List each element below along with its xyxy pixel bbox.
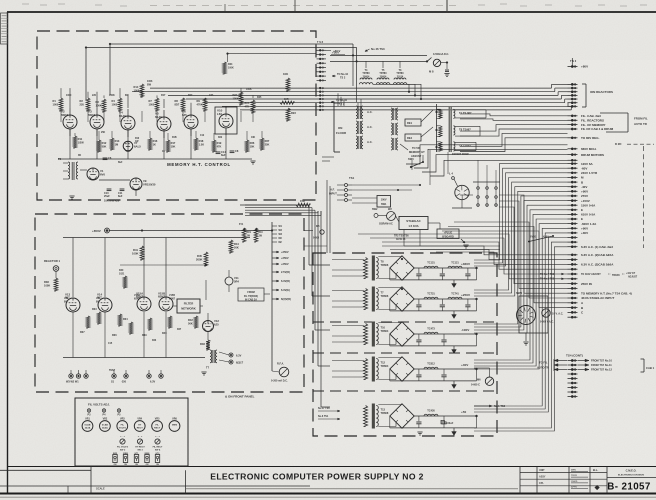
terminal stub FIL. CAB. 2&3 y115.8 bbox=[568, 114, 602, 118]
wire harness bus 4 bbox=[186, 98, 561, 100]
filter rails T13 bbox=[390, 416, 477, 428]
wire transformer bank drops bbox=[358, 99, 361, 106]
label No 46 TS3 bbox=[365, 47, 385, 52]
variac W2 bbox=[387, 208, 396, 221]
label TO No44 TS2 bbox=[332, 73, 349, 79]
terminal stub nc y84.4 bbox=[568, 83, 578, 85]
transformer core (front row bank) bbox=[449, 106, 451, 152]
terminal stub FIL OF CAB 4 & DRUM y129 bbox=[568, 127, 614, 131]
tube V15B bbox=[158, 292, 173, 312]
component 6Y10 bbox=[528, 235, 554, 242]
TS4 stub 3 bbox=[568, 369, 578, 371]
extra labels regulator box bbox=[64, 269, 182, 345]
resistor R11 bbox=[73, 136, 84, 148]
wire harness bus 7 riser bbox=[570, 106, 572, 110]
filter rails T12 bbox=[390, 369, 477, 381]
TS4 stub 6 bbox=[568, 382, 578, 384]
tube V3 bbox=[88, 108, 104, 136]
bridge rectifier T13 bbox=[378, 404, 414, 428]
input feeds T7 bbox=[332, 291, 364, 308]
TS4 stub 9 bbox=[568, 396, 578, 398]
transformer T12 TR664 bbox=[364, 357, 389, 382]
terminal stub B y182.1 bbox=[568, 180, 585, 184]
terminal stub FIL. OF MEMORY y124.6 bbox=[568, 123, 606, 127]
wire fil feed 5 bbox=[460, 133, 568, 146]
rectifier partition 2 bbox=[313, 352, 497, 354]
transformer T13 TR668 bbox=[364, 404, 389, 429]
terminal stub 270V y195.9 bbox=[568, 194, 589, 198]
wire feeder elbow 3 bbox=[315, 329, 330, 331]
top margin fold tick B bbox=[446, 0, 448, 13]
transformer winding AC group 1 bbox=[356, 106, 373, 119]
filter capacitors T10 bbox=[416, 334, 446, 346]
ground near transformer T6 bbox=[69, 195, 74, 197]
wire dc distribution 18 bbox=[474, 242, 568, 428]
resistor R41 100K bbox=[132, 246, 144, 260]
terminal stub B y307.6 bbox=[568, 306, 585, 310]
wire harness bus 5 riser bbox=[564, 99, 566, 103]
inner bus vertical bbox=[271, 222, 273, 371]
wire +30V internal bbox=[227, 53, 317, 62]
terminal strip TS8 upper stubs bbox=[317, 49, 327, 81]
wire mid horizontal 15R run bbox=[240, 204, 296, 206]
input feeds T8 bbox=[332, 260, 364, 277]
label TO No3 TS3 bbox=[540, 278, 564, 281]
wire dc distribution 3 bbox=[474, 173, 568, 266]
wire row y249 bbox=[390, 249, 500, 251]
TS4 stub 2 bbox=[568, 364, 578, 366]
resistor R13 bbox=[110, 138, 120, 150]
wire dc distribution 11 bbox=[474, 210, 568, 360]
filter capacitors T12 bbox=[416, 369, 446, 381]
rheostat VR5 bbox=[152, 418, 163, 432]
rectifier partition 1 bbox=[313, 321, 497, 323]
terminal stub nc y242.1 bbox=[568, 241, 578, 243]
resistor R1 bbox=[53, 98, 63, 111]
wire secondary staircase bbox=[373, 84, 422, 100]
terminal stub +150V y200.6 bbox=[568, 199, 590, 203]
output +50 bbox=[461, 410, 478, 417]
ground arrow T10 bbox=[452, 346, 457, 354]
output +360V bbox=[461, 262, 478, 269]
reactor coil bank 3 bbox=[391, 138, 398, 150]
ground arrow T12 bbox=[452, 381, 457, 389]
filter network box bbox=[177, 299, 200, 313]
transformer T10 TR664 bbox=[364, 322, 389, 347]
ground arrow T7 bbox=[452, 311, 457, 319]
resistor labels under tubes bbox=[80, 308, 167, 337]
capacitor C14 bbox=[216, 150, 227, 157]
capacitor C6 bbox=[103, 156, 112, 160]
ground arrow T8 bbox=[452, 280, 457, 288]
ground in memory box bbox=[250, 160, 255, 162]
meter switch small circles bbox=[117, 436, 163, 451]
terminal board grid bbox=[473, 182, 500, 207]
terminal stub DRUM MOTORS y154.6 bbox=[568, 153, 604, 157]
wire harness bus 3 riser bbox=[557, 92, 559, 96]
wire TS1 lines right bbox=[352, 184, 421, 200]
rheostat VR4 bbox=[134, 418, 145, 432]
switch box 100V SW1 bbox=[352, 196, 391, 208]
transformer winding T8 bbox=[437, 126, 481, 137]
terminal stub +80V y66.5 bbox=[568, 65, 589, 69]
terminal stub nc y106.36 bbox=[568, 105, 578, 107]
plugboard arrow and ground bbox=[461, 239, 469, 248]
label TO 5R MEMORY HT ADJUST bbox=[400, 144, 425, 158]
resistor R52 bbox=[254, 228, 263, 242]
border frame left rule bbox=[7, 12, 9, 493]
TS4 stub 7 bbox=[568, 387, 578, 389]
terminal stub E y209.8 bbox=[568, 208, 584, 212]
wire tube V2 cathode drop bbox=[69, 129, 71, 159]
bracket FROM FIL TR bbox=[238, 288, 270, 301]
wire dc distribution 1 bbox=[474, 164, 568, 260]
wire top drop right A bbox=[352, 44, 354, 55]
wire top bus line 1 bbox=[110, 43, 353, 45]
wire dc distribution 15 bbox=[474, 228, 568, 406]
wire filter out bbox=[200, 305, 203, 307]
bridge rectifier T8 bbox=[378, 256, 414, 280]
wire dc distribution 12 bbox=[474, 214, 568, 363]
wire vertical x356 bbox=[356, 61, 358, 102]
top margin tick marks bbox=[22, 4, 647, 6]
wire tube V6 cathode drop bbox=[190, 129, 192, 159]
revision table bbox=[1, 13, 8, 44]
terminal stub nc y278.8 bbox=[568, 278, 578, 280]
wire left drop 2 bbox=[85, 48, 87, 100]
rectifier bank enclosure (dashed) bbox=[313, 253, 497, 436]
wire 15R line bbox=[261, 102, 263, 104]
wire harness bus 7 bbox=[240, 109, 571, 111]
wire harness bus 4 riser bbox=[560, 95, 562, 99]
wire drops to ON FLOOR bank bbox=[338, 89, 344, 106]
input feed No.6 TS1 bbox=[318, 415, 340, 420]
rheostat VR3 bbox=[117, 418, 128, 432]
terminal +650V bbox=[92, 228, 109, 233]
rheostat VR1 bbox=[82, 418, 93, 432]
wire RE to T1 T2 bbox=[400, 110, 433, 137]
on-floor bracket bbox=[334, 103, 347, 152]
terminal stub 6.3V A.C. (2)CAB 4&5A y254.8 bbox=[568, 253, 615, 257]
transformer T8 TR666 bbox=[364, 256, 389, 281]
wire harness bus 1 riser bbox=[551, 84, 553, 88]
wire R41 top bbox=[141, 238, 143, 247]
resistor R40b bbox=[123, 276, 127, 288]
label TR1R8 adjust bbox=[581, 273, 638, 279]
resistor R18 bbox=[194, 138, 204, 150]
wire feed line A bbox=[330, 54, 427, 56]
wire resistor bottoms to tubes bbox=[61, 111, 253, 122]
wire fil feed 1 bbox=[460, 114, 568, 116]
resistor R9 bbox=[197, 98, 207, 111]
terminal stub 6.3V A.C. (1) CAB. 2&3 y246.7 bbox=[568, 245, 614, 249]
inner terminal 6(3)V(D) bbox=[272, 297, 291, 301]
pilot lamps P3 P4 P5 bbox=[87, 409, 121, 417]
wire dc distribution 14 bbox=[474, 224, 568, 369]
terminal stub E y219.0 bbox=[568, 217, 584, 221]
output +250V bbox=[461, 293, 478, 300]
terminal stub nc y160.3 bbox=[568, 159, 578, 161]
terminal stub nc y99.04 bbox=[568, 98, 578, 100]
rotary switch SW4 bbox=[516, 291, 536, 325]
terminal stub nc y288.4 bbox=[568, 287, 578, 289]
label +30V top bbox=[331, 51, 345, 55]
title strip left cell rules bbox=[0, 467, 310, 494]
wire +650V bus bbox=[110, 230, 273, 232]
wire cathode bus bbox=[58, 158, 252, 160]
wire harness bus 6 bbox=[222, 105, 568, 107]
wire regulator box exit right bbox=[304, 231, 327, 247]
tube V12 bbox=[203, 319, 220, 332]
wire aux feed 3 bbox=[422, 155, 568, 172]
toggle switches row bbox=[113, 453, 160, 466]
wire regulator tube drops bbox=[73, 312, 166, 358]
dashed D20 drop line bbox=[643, 146, 645, 248]
wire top drop right B bbox=[356, 48, 358, 62]
tube V10 enclosure box bbox=[215, 107, 237, 134]
label TO No44 TS3 bbox=[331, 99, 348, 105]
wire ac distribution 2 bbox=[420, 250, 568, 260]
terminal stub nc y102.7 bbox=[568, 102, 578, 104]
terminal stub nc y91.72 bbox=[568, 91, 578, 93]
resistor R51 6Y1 bbox=[239, 223, 251, 242]
wire ac distribution 7 bbox=[499, 207, 568, 284]
label TR2 TS5 TS6 bbox=[394, 235, 409, 242]
wire dc distribution 9 bbox=[474, 201, 568, 330]
tube V13 bbox=[65, 293, 80, 313]
top margin fold tick C bbox=[224, 4, 226, 11]
wire SW area verticals bbox=[412, 150, 448, 185]
TS4 right arrows FROM TS7 bbox=[578, 359, 612, 372]
filter capacitors T13 bbox=[416, 416, 446, 428]
inner terminal +250V bbox=[272, 256, 289, 260]
tube V11 bbox=[225, 270, 239, 292]
wire dc distribution 10 bbox=[474, 205, 568, 333]
TS4 stub 4 bbox=[568, 373, 578, 375]
wire ac distribution 3 bbox=[436, 252, 568, 264]
TS4 stub 5 bbox=[568, 378, 578, 380]
terminal M5 0-600 bbox=[313, 225, 324, 240]
input feeds T12 bbox=[332, 361, 364, 378]
reactor coil bank 2 bbox=[391, 123, 398, 135]
wire feeder elbow 1 bbox=[309, 264, 330, 266]
label D.20 bbox=[615, 142, 654, 146]
terminal stub nc y237.5 bbox=[568, 237, 578, 239]
inner terminal 6.3V(D) bbox=[272, 279, 290, 283]
wire left drop 1 bbox=[109, 44, 111, 95]
wire fil feed 6 bbox=[460, 138, 568, 152]
row5 output line bbox=[474, 404, 506, 408]
title strip underline bbox=[186, 488, 518, 490]
wire harness bus 3 bbox=[168, 94, 558, 96]
meter M8 bbox=[429, 53, 449, 73]
choke TC741 bbox=[448, 293, 462, 300]
wire harness bus 2 bbox=[132, 91, 555, 93]
filter capacitors T8 bbox=[416, 268, 470, 280]
wire under V9 bbox=[135, 190, 137, 196]
wire ac distribution 11 bbox=[448, 227, 568, 303]
resistor R42 50K bbox=[188, 316, 198, 328]
transformer winding AC group 3 bbox=[356, 136, 373, 149]
resistor R21 15K bbox=[296, 199, 310, 207]
resistor R23 bbox=[286, 108, 296, 121]
company name bbox=[618, 468, 644, 476]
terminal stub nc y95.38 bbox=[568, 94, 578, 96]
wire ac distribution 1 bbox=[404, 246, 568, 255]
wire ac distribution 4 bbox=[382, 242, 568, 269]
wire tube V3 cathode drop bbox=[96, 129, 98, 159]
wire R45 drop bbox=[205, 252, 207, 266]
wire ac distribution 5 bbox=[370, 238, 568, 274]
transformer winding T9 bbox=[437, 142, 477, 151]
inner terminal 2.5V(D) bbox=[272, 270, 290, 274]
wire board risers bbox=[478, 160, 496, 184]
switch SW2 bbox=[372, 208, 378, 218]
tube V15A bbox=[136, 292, 151, 312]
transformer primary feed bus bbox=[436, 104, 438, 152]
terminal stub +90V y191.3 bbox=[568, 190, 589, 194]
voltage regulator enclosure (dashed) bbox=[35, 214, 304, 392]
wire stabilac to SW bbox=[379, 214, 381, 217]
bridge rectifier T7 bbox=[378, 287, 414, 311]
memory HT control enclosure (dashed) bbox=[37, 31, 316, 200]
bottom terminals W3 W2 W1 bbox=[66, 370, 88, 384]
wire dc distribution 2 bbox=[474, 168, 568, 263]
resistor R2 bbox=[80, 98, 90, 111]
terminal stub 150V 0-6A y205.2 bbox=[568, 203, 597, 207]
wire L4 to board bbox=[460, 194, 473, 196]
wire dc distribution 8 bbox=[474, 196, 568, 327]
resistor R7 bbox=[149, 98, 159, 111]
wire fil feed 2 bbox=[460, 119, 568, 120]
bottom terminal S1 bbox=[109, 369, 116, 384]
transformer T5 TR780 bbox=[376, 61, 390, 84]
output -100V bbox=[461, 328, 478, 335]
wire fil feed 4 bbox=[460, 129, 568, 136]
wire aux feed 1 bbox=[406, 145, 568, 164]
transformer winding AC group 2 bbox=[356, 121, 373, 134]
resistor R4 bbox=[112, 98, 122, 111]
terminal stub 660V MCH. y148.8 bbox=[568, 147, 597, 151]
filter rails T7 bbox=[390, 299, 477, 311]
wire ac distribution 8 bbox=[499, 201, 568, 288]
ion reactors bracket bbox=[582, 84, 613, 107]
plugboard bbox=[437, 229, 459, 239]
junction dots scattered bbox=[85, 43, 403, 290]
tube V14 bbox=[97, 293, 112, 313]
terminal stub TO 80V REG. y137.8 bbox=[568, 136, 600, 140]
wire dc distribution 5 bbox=[474, 182, 568, 293]
extra value labels memory box bbox=[66, 80, 262, 164]
wire feeder horizontals bbox=[245, 205, 321, 215]
capacitor C8 bbox=[230, 149, 239, 153]
fil group bracket bbox=[600, 113, 648, 132]
top margin fold tick A bbox=[294, 0, 296, 11]
wire harness bus 2 riser bbox=[554, 88, 556, 92]
TS4 stub 8 bbox=[568, 391, 578, 393]
ground row5 bbox=[417, 431, 422, 433]
bottom terminal -250 bbox=[121, 370, 128, 384]
wire +80V riser bbox=[571, 58, 573, 67]
bridge rectifier T10 bbox=[378, 322, 414, 346]
wire dc distribution 13 bbox=[474, 219, 568, 366]
inner terminal +250V bbox=[272, 262, 289, 266]
wire filter in bbox=[173, 305, 177, 307]
tube V5 bbox=[155, 110, 171, 138]
ground under T7 bbox=[201, 371, 206, 373]
choke TC121 bbox=[448, 262, 462, 269]
terminal stub -60V y168.2 bbox=[568, 166, 588, 170]
meter M6 bbox=[471, 377, 494, 387]
tube V1 bbox=[87, 168, 105, 180]
choke TC131 bbox=[424, 262, 438, 269]
wire dc distribution 17 bbox=[474, 238, 568, 413]
wire dc distribution 16 bbox=[474, 233, 568, 409]
label HF INPUT bbox=[329, 185, 345, 200]
resistor R14 bbox=[134, 84, 144, 97]
tube V9 voltage reg bbox=[130, 178, 156, 190]
terminal stub 120V 6A y163.6 bbox=[568, 162, 594, 166]
wire feeder vertical 4 bbox=[317, 211, 319, 366]
wire tube V5 cathode drop bbox=[163, 129, 165, 159]
switch SW3 bbox=[408, 155, 424, 168]
resistor R45 200K bbox=[196, 252, 208, 266]
wire aux feed 4 bbox=[430, 160, 568, 176]
reactor coil bank 1 bbox=[391, 108, 398, 120]
wire tube V10 cathode drop bbox=[225, 129, 227, 159]
terminal stub nc y317.2 bbox=[568, 316, 578, 318]
resistor R26 bbox=[245, 140, 255, 152]
wire dc distribution 19 bbox=[474, 247, 568, 431]
border frame top rule bbox=[7, 11, 656, 13]
electrolytic 100uF bbox=[441, 420, 454, 425]
terminal stub TO MEMORY H.T. (No.7 TS4 CAB. 4) y293.2 bbox=[568, 291, 632, 295]
meter M9 bbox=[540, 309, 564, 324]
tube V7 bbox=[123, 141, 141, 151]
wire mid cross bbox=[120, 264, 206, 266]
resistor R3 bbox=[96, 99, 106, 112]
choke TC731 bbox=[424, 293, 438, 300]
terminal stub nc y274.0 bbox=[568, 273, 578, 275]
resistor 15R bbox=[280, 98, 294, 104]
wire harness bus 1 bbox=[150, 87, 552, 89]
wire top bus line 2 bbox=[86, 47, 357, 49]
resistors under regulator tubes bbox=[86, 312, 172, 334]
wire feed line B bbox=[330, 60, 427, 62]
TS4 CAB 1 bracket bbox=[641, 359, 655, 372]
terminal stub 610V 0-5A y214.4 bbox=[568, 213, 597, 217]
terminal stub +90V y228.3 bbox=[568, 227, 589, 231]
bottom margin faint rule bbox=[0, 496, 656, 498]
transformer T4 TR780 bbox=[359, 61, 373, 84]
wire ac distribution 10 bbox=[454, 222, 568, 298]
terminal stub -40V y186.7 bbox=[568, 185, 588, 189]
transformer T6 (heater) bbox=[58, 157, 78, 180]
wire stabilac drop bbox=[403, 230, 405, 247]
capacitor C10 bbox=[104, 189, 111, 198]
wire dc distribution 4 bbox=[474, 178, 568, 291]
transformer T7 bbox=[206, 350, 217, 370]
resistor R25 bbox=[245, 100, 255, 113]
rheostat VR2 bbox=[100, 418, 111, 432]
wire feeder vertical 5 bbox=[320, 211, 322, 407]
border frame bottom rule bbox=[0, 493, 656, 495]
terminal strip TS8 dumbbells on bus bbox=[319, 87, 323, 111]
terminal stub nc y88.06 bbox=[568, 87, 578, 89]
heater terminals 6.3V bbox=[219, 352, 244, 365]
wire feeder elbow 5 bbox=[321, 406, 330, 408]
choke TC812 bbox=[424, 363, 438, 370]
